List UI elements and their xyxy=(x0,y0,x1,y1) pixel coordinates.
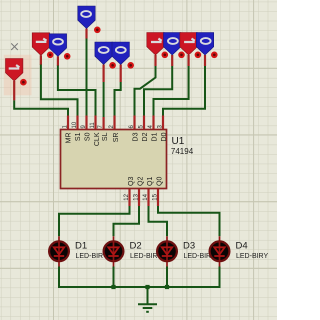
svg-text:S1: S1 xyxy=(75,132,82,141)
svg-text:12: 12 xyxy=(124,193,130,200)
logic state C (0) xyxy=(49,34,66,57)
wire A to MR pin1 xyxy=(14,81,68,130)
svg-text:SR: SR xyxy=(113,133,120,143)
LED D1 xyxy=(49,236,108,266)
svg-text:11: 11 xyxy=(90,122,96,129)
IC U1 74194 body xyxy=(61,130,194,189)
selection highlight around flag A xyxy=(4,55,32,96)
svg-text:SL: SL xyxy=(102,132,109,141)
wire J to D0 pin3 xyxy=(163,55,205,130)
interactive dot D xyxy=(94,27,101,34)
logic state G (1) xyxy=(147,33,164,56)
logic state I (1) xyxy=(180,33,197,56)
interactive dot B xyxy=(47,52,54,59)
origin marker xyxy=(11,43,18,50)
wire B to S1 pin10 xyxy=(41,55,78,130)
junction D2-bus xyxy=(111,285,115,289)
svg-text:D1: D1 xyxy=(152,132,159,141)
svg-text:LED-BIRY: LED-BIRY xyxy=(236,253,268,260)
svg-text:MR: MR xyxy=(66,133,73,144)
wire Q3 pin12 to LED D1 xyxy=(59,189,130,237)
svg-text:D0: D0 xyxy=(161,132,168,141)
interactive dot E xyxy=(109,62,116,69)
interactive dot I xyxy=(195,52,202,59)
LED D2 xyxy=(104,236,163,266)
interactive dot G xyxy=(162,52,169,59)
LED cathode drops to ground bus xyxy=(59,267,220,288)
interactive dot C xyxy=(64,53,71,60)
interactive dot J xyxy=(211,52,218,59)
logic state D (0) xyxy=(78,6,95,29)
wire Q1 pin14 to LED D3 xyxy=(149,189,168,237)
svg-text:D2: D2 xyxy=(142,132,149,141)
svg-text:10: 10 xyxy=(72,121,78,128)
junction ground-bus xyxy=(145,285,149,289)
svg-text:CLK: CLK xyxy=(94,132,101,146)
logic state H (0) xyxy=(164,33,181,56)
svg-text:13: 13 xyxy=(134,193,140,200)
wire E to SL pin7 xyxy=(102,65,104,130)
svg-text:D2: D2 xyxy=(130,240,142,251)
wire Q0 pin15 to LED D4 xyxy=(158,189,220,237)
interactive dot A xyxy=(20,79,27,86)
logic state E (0) xyxy=(95,42,112,65)
junction D3-bus xyxy=(165,285,169,289)
LED D4 xyxy=(210,236,269,266)
svg-text:D1: D1 xyxy=(75,240,87,251)
svg-text:D4: D4 xyxy=(236,240,248,251)
wire D to S0 pin9 xyxy=(85,29,87,130)
svg-text:U1: U1 xyxy=(172,136,185,147)
wire H to D2 pin5 xyxy=(144,55,172,130)
logic state F (0) xyxy=(112,42,129,65)
svg-text:Q2: Q2 xyxy=(138,177,145,186)
wire Q2 pin13 to LED D2 xyxy=(114,189,140,237)
LED D3 xyxy=(157,236,216,266)
wire I to D1 pin4 xyxy=(154,55,189,130)
wire G to D3 pin6 xyxy=(135,55,156,130)
svg-text:D3: D3 xyxy=(183,240,195,251)
wire C to CLK pin11 xyxy=(58,56,96,130)
ground symbol xyxy=(138,287,157,312)
svg-text:14: 14 xyxy=(143,193,149,200)
logic state J (0) xyxy=(196,33,213,56)
svg-text:15: 15 xyxy=(153,193,159,200)
logic state B (1) xyxy=(32,33,49,56)
wire F to SR pin2 xyxy=(115,65,121,130)
logic state A (1) xyxy=(6,59,23,82)
interactive dot H xyxy=(178,52,185,59)
svg-text:74194: 74194 xyxy=(171,147,194,156)
interactive dot F xyxy=(127,62,134,69)
svg-text:Q1: Q1 xyxy=(147,177,154,186)
svg-text:D3: D3 xyxy=(133,132,140,141)
svg-text:Q3: Q3 xyxy=(128,177,135,186)
svg-text:Q0: Q0 xyxy=(157,177,164,186)
svg-text:S0: S0 xyxy=(85,132,92,141)
